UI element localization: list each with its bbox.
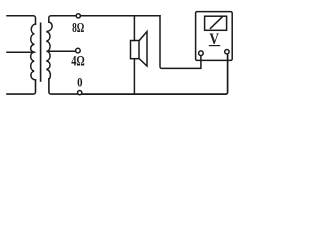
terminal 4-ohm (circle) — [76, 48, 81, 53]
wire secondary top exit to 8-ohm terminal — [49, 16, 76, 22]
svg-text:V: V — [209, 31, 219, 48]
terminal 0 (circle) — [78, 91, 82, 95]
voltmeter PV right terminal — [225, 50, 229, 54]
voltmeter PV case — [196, 12, 233, 61]
terminal 8-ohm (circle) — [76, 14, 80, 18]
transformer T1 primary winding — [31, 24, 36, 80]
voltmeter PV left terminal — [199, 51, 204, 56]
svg-text:0: 0 — [77, 75, 82, 90]
transformer T1 core — [40, 23, 42, 81]
voltmeter PV display window — [205, 16, 227, 30]
svg-text:4Ω: 4Ω — [71, 53, 85, 69]
svg-text:8Ω: 8Ω — [72, 21, 84, 36]
wire bottom rail to voltmeter — [82, 54, 228, 94]
wire primary bottom exit — [7, 80, 36, 94]
wire top rail to right corner — [81, 15, 161, 17]
wire right loop to voltmeter left terminal — [160, 16, 201, 69]
voltmeter PV V underline — [209, 45, 219, 47]
wire secondary tap to 4-ohm terminal — [47, 50, 75, 52]
wire speaker upper stem — [133, 16, 135, 41]
wire primary top lead — [7, 16, 36, 24]
wire primary centre-tap lead — [7, 51, 34, 53]
voltmeter PV needle — [211, 17, 223, 29]
loudspeaker LS body — [131, 41, 140, 59]
wire speaker lower stem — [133, 59, 135, 94]
wire secondary bottom exit — [49, 79, 78, 94]
transformer T1 secondary winding — [46, 22, 52, 79]
loudspeaker LS horn — [139, 32, 147, 67]
